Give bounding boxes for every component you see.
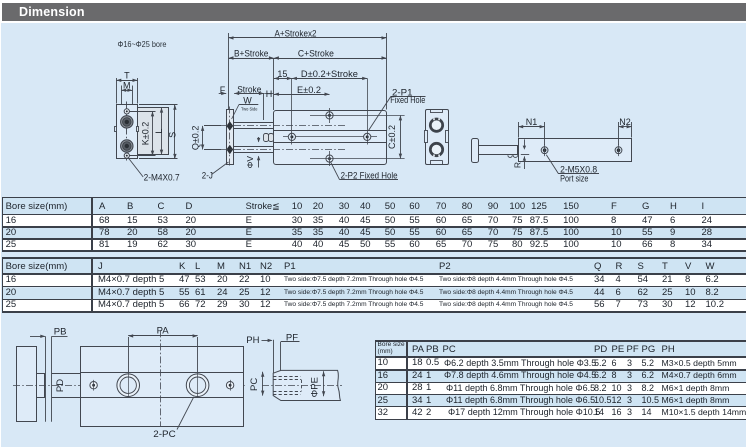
dimension F [219,93,227,95]
svg-text:PA: PA [157,326,170,337]
svg-text:L: L [154,129,164,134]
dimension R [524,139,526,145]
side view: cylinder body [519,139,632,162]
main view: plate centerline [229,107,231,168]
table 2 row 16 [6,275,17,285]
dimension A+Strokex2 [228,33,230,109]
dimension C+Stroke [274,58,387,60]
left end view: port hole bottom [121,140,133,152]
side view: rod end plate [472,139,479,163]
svg-text:R: R [512,162,522,168]
bottom view: body inner line upper [80,372,243,374]
svg-text:2-M4X0.7: 2-M4X0.7 [144,173,180,184]
svg-text:Stroke: Stroke [237,85,261,95]
bottom view: rod plate elevation [17,347,37,422]
left end view: vertical centerline [126,102,128,163]
bottom view: body underside [81,347,244,427]
main view: mid centerline through ports [283,136,377,138]
main view: rod centerline upper [221,125,347,127]
dimension E±0.2 [274,94,330,96]
main view: bottom fixed hole [326,155,333,162]
left end view: body [117,105,138,159]
main view: rod centerline lower [221,149,347,151]
left end view: M4 screw hole bottom [124,153,129,158]
main view: rod nut upper (wrench flats) [226,121,233,130]
side view: cushion bumps [508,155,518,157]
side view: piston rod [479,146,518,155]
table 2 frame [2,257,746,259]
dimension B+Stroke [229,58,274,60]
left end view: M4 screw hole top [124,109,129,114]
main view: right port hole [364,133,371,140]
left end view: left sensor notch [115,127,117,132]
dimension ΦPE [323,371,325,396]
svg-text:Two Side: Two Side [241,106,258,112]
right end view: bore ring lower [429,142,443,156]
right end view: right sensor slot [446,131,449,143]
table 3 row 10 [378,358,389,368]
main view: top fixed hole [326,112,333,119]
svg-text:A+Strokex2: A+Strokex2 [275,28,317,38]
svg-text:C±0.2: C±0.2 [387,125,397,149]
svg-text:PC: PC [249,378,260,391]
svg-text:2-J: 2-J [202,170,213,181]
dimension PC [262,372,264,396]
table 3 header [378,342,405,349]
bottom view: rod stub [37,374,45,398]
table 1 header [6,202,68,212]
svg-text:K±0.2: K±0.2 [140,122,150,145]
left end view: right edge notch [137,127,139,132]
svg-text:15: 15 [277,69,287,79]
table 3 row 25 [378,396,389,406]
dimension ΦV [258,137,260,142]
dimension Stroke (plate travel) [234,93,264,95]
dimension PA [128,337,130,373]
right end view: bore ring upper [429,118,443,132]
label 2-M4X0.7 [128,158,143,178]
svg-text:N1: N1 [526,117,538,127]
dimension K±0.2 [130,111,156,113]
bottom view: bore hole 2 [186,374,209,397]
svg-text:N2: N2 [619,117,631,127]
dimension H [263,93,265,120]
svg-text:C+Stroke: C+Stroke [298,49,334,59]
svg-text:Fixed Hole: Fixed Hole [390,95,425,106]
dimension Q±0.2 [204,125,221,127]
bottom view: horizontal centerline [13,385,245,387]
table 1 row 25 [6,240,17,250]
right end view: left sensor slot [425,131,428,143]
main view: rod lower [234,147,274,153]
svg-text:S: S [167,132,177,138]
svg-text:M: M [123,81,131,91]
table 1 row 20 [6,228,17,238]
bottom view: body near face line 1 [45,336,47,421]
dimension M [121,86,123,105]
left end view: port hole top [121,116,133,128]
svg-text:W: W [243,95,252,105]
right end view: body [426,110,449,165]
left end view: back plate [138,108,169,155]
dimension S [139,104,178,106]
dimension 15 [274,78,292,80]
right end view: bottom tab [430,160,443,162]
dimension PD extension lines [52,373,81,375]
dimension L [161,108,163,155]
main view: port boss on left face [264,134,269,142]
bottom view: bore hole 1 [117,374,140,397]
dimension N1 [518,122,520,138]
svg-text:T: T [124,71,130,81]
svg-text:E±0.2: E±0.2 [297,85,321,95]
table 1 row 16 [6,216,17,226]
table 2 row 20 [6,288,17,298]
side view: port 2 [615,147,622,154]
section: centerline [262,385,342,387]
section: thread hidden lines [273,376,300,378]
dimension N2 [618,122,620,145]
main view: body inner line lower [274,142,387,144]
bottom view: end screw hole left [90,382,97,389]
svg-text:PF: PF [286,333,298,344]
side view: port 1 [541,147,548,154]
table 3 row 32 [378,408,389,418]
right end view: top tab [430,112,443,114]
dimension PB [30,336,45,338]
header bar Dimension [2,3,746,21]
table 3 row 16 [378,371,389,381]
main view: rod plate [227,110,234,165]
bottom view: vertical centerline [160,330,162,427]
svg-text:H: H [266,89,273,99]
section: boss outline [273,370,340,400]
bottom view: body near face line 2 [51,336,53,421]
bottom view: end screw hole right [226,382,233,389]
svg-text:D±0.2+Stroke: D±0.2+Stroke [301,69,358,79]
main view: cylinder body [274,111,387,165]
dimension D±0.2+Stroke [292,78,367,80]
bottom view: body inner line lower [80,397,243,399]
dimension C±0.2 (hole spacing) [400,115,402,158]
main view: rod nut lower (wrench flats) [226,145,233,154]
table 3 row 20 [378,383,389,393]
svg-text:Q±0.2: Q±0.2 [190,126,200,150]
label 2-J [212,162,229,175]
svg-text:Φ16~Φ25 bore: Φ16~Φ25 bore [118,40,168,49]
main view: rod upper [234,123,274,129]
svg-text:PB: PB [54,326,67,337]
dimension T [116,78,118,104]
svg-text:ΦPE: ΦPE [310,377,321,397]
main view: body inner line upper [274,130,387,132]
table 2 row 25 [6,300,17,310]
svg-text:Port size: Port size [560,173,588,184]
table 3 frame [375,340,746,342]
svg-text:B+Stroke: B+Stroke [234,49,269,59]
label 2-PC [177,397,194,430]
svg-text:2-PC: 2-PC [153,429,176,440]
table 1 frame [2,197,746,199]
svg-text:F: F [220,85,226,95]
svg-text:ΦV: ΦV [245,156,255,169]
svg-text:PH: PH [246,335,259,346]
main view: left port hole [288,133,295,140]
table 2 header [6,262,68,272]
